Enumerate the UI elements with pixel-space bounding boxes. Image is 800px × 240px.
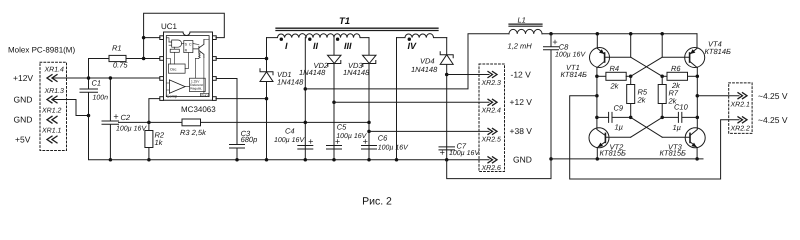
wire winding IV left down — [396, 38, 398, 160]
svg-text:IV: IV — [408, 41, 418, 51]
svg-text:XR1.1: XR1.1 — [41, 128, 62, 135]
inductor L1 — [508, 16, 543, 51]
svg-text:2k: 2k — [671, 81, 681, 90]
capacitor C6 — [362, 133, 410, 151]
node C8 top — [549, 32, 553, 36]
node R2 bottom on GND rail — [147, 158, 151, 162]
wire R1 branch from +12V rail — [89, 59, 110, 79]
transistor VT2 KT815B — [589, 128, 626, 159]
svg-text:XR2.2: XR2.2 — [730, 126, 751, 133]
capacitor C9 — [597, 104, 631, 132]
connector XR2.1/XR2.2 block — [729, 83, 752, 133]
svg-text:Osc: Osc — [170, 68, 177, 72]
capacitor C7 — [439, 142, 480, 158]
svg-text:I: I — [285, 41, 288, 51]
svg-text:1N4148: 1N4148 — [277, 78, 304, 87]
svg-text:+: + — [440, 148, 445, 158]
wire top feedback loop — [144, 13, 225, 58]
svg-text:1,2 mH: 1,2 mH — [508, 42, 533, 51]
transistor VT1 KT814B — [561, 34, 610, 79]
node C1 top on +12V rail — [87, 76, 91, 80]
resistor R4 — [597, 64, 631, 91]
op-amp U1 / IC UC1 MC34063 — [161, 22, 216, 114]
pin XR2.4 — [481, 99, 502, 114]
svg-text:R6: R6 — [671, 64, 681, 73]
node XR2.2 tap — [595, 94, 599, 98]
IC internal flip-flop — [184, 41, 193, 53]
pin 8 right — [213, 36, 217, 40]
resistor R5 — [627, 76, 648, 117]
node C1 bottom / GND step — [87, 114, 91, 118]
transistor VT4 KT814B — [685, 34, 731, 68]
node C10 tap — [696, 116, 700, 120]
svg-text:+: + — [552, 37, 557, 47]
node C2 bottom on GND rail — [109, 158, 113, 162]
svg-text:GND: GND — [14, 95, 33, 105]
winding IV — [397, 34, 447, 51]
svg-text:1N4148: 1N4148 — [343, 68, 370, 77]
pin 4 left — [160, 97, 164, 101]
pin XR1.4 — [44, 67, 65, 82]
wire XR2.1 row — [697, 95, 739, 97]
svg-text:XR2.3: XR2.3 — [481, 80, 502, 87]
node VD1 / IC gnd row — [265, 97, 269, 101]
resistor R1 — [109, 44, 128, 70]
wire VT1 base row — [605, 56, 631, 58]
svg-text:100µ 16V: 100µ 16V — [555, 52, 586, 59]
capacitor C8 — [544, 34, 587, 159]
svg-text:XR1.4: XR1.4 — [44, 67, 65, 74]
svg-text:C8: C8 — [559, 42, 569, 51]
svg-text:C2: C2 — [121, 113, 131, 122]
pin XR2.2 — [730, 117, 751, 133]
capacitor C4 — [274, 127, 313, 150]
svg-text:+: + — [363, 137, 368, 147]
node loop/pin6 R1 — [142, 57, 146, 61]
svg-text:1µ: 1µ — [615, 123, 624, 132]
winding III — [334, 34, 369, 51]
svg-text:КТ815Б: КТ815Б — [600, 148, 627, 157]
connector XR1 Molex PC-8981(M) — [8, 46, 75, 151]
node +38V row start — [367, 130, 371, 134]
node C5 bottom GND — [332, 158, 336, 162]
pin XR1.3 — [44, 88, 65, 103]
node C6 bottom GND — [367, 158, 371, 162]
pin 6 left — [160, 57, 164, 61]
node X right on rail — [660, 32, 664, 36]
IC internal wires — [166, 38, 208, 94]
node C9 right — [629, 116, 633, 120]
wire feedback row from C2 to R3 — [119, 121, 183, 123]
node XR2.1 tap — [696, 94, 700, 98]
svg-text:Comp: Comp — [167, 94, 178, 99]
pin 7 left — [160, 36, 164, 40]
svg-text:XR2.6: XR2.6 — [481, 165, 502, 172]
node C10 left — [660, 116, 664, 120]
pin 3 right gnd — [213, 97, 217, 101]
resistor R7 — [658, 76, 679, 117]
svg-text:КТ815Б: КТ815Б — [660, 148, 687, 157]
svg-text:+: + — [113, 112, 118, 122]
svg-text:2k: 2k — [637, 95, 647, 104]
wire VT1 collector chain down — [596, 68, 598, 129]
wire winding I-II junction down — [304, 38, 306, 160]
node C7 on GND rail — [445, 158, 449, 162]
node X left on rail — [629, 32, 633, 36]
svg-text:C4: C4 — [285, 127, 295, 136]
node C9 tap — [595, 116, 599, 120]
svg-text:XR1.2: XR1.2 — [41, 108, 62, 115]
emitter GND rail right — [551, 158, 703, 160]
wire GND down to bottom rail — [89, 116, 111, 160]
diode VD4 — [411, 52, 453, 74]
IC internal driver gate — [169, 40, 182, 47]
svg-text:C10: C10 — [674, 103, 689, 112]
node VT1 emitter on rail — [596, 32, 600, 36]
pin XR2.3 — [481, 72, 502, 87]
IC internal transistor Q — [193, 40, 204, 58]
IC internal resistor under gate — [170, 49, 179, 52]
node winding IV left GND — [395, 158, 399, 162]
svg-text:XR2.5: XR2.5 — [481, 137, 502, 144]
resistor R2 — [145, 122, 165, 159]
winding I — [267, 34, 307, 51]
pin XR2.1 — [730, 93, 751, 109]
cross-coupling upper X — [631, 34, 663, 77]
pin XR1.1 — [41, 128, 62, 143]
transistor VT3 KT815B — [660, 128, 706, 159]
svg-text:UC1: UC1 — [161, 22, 178, 31]
node R4 tap — [595, 75, 599, 79]
wire winding II-III junction down / VD2 chain — [333, 38, 335, 160]
resistor R6 — [662, 64, 697, 90]
GND bottom rail — [110, 159, 489, 161]
svg-text:III: III — [344, 41, 352, 51]
svg-text:C6: C6 — [378, 133, 388, 142]
wire R1 to IC pin — [126, 58, 160, 60]
node +38 top row — [304, 87, 308, 91]
svg-text:1N4148: 1N4148 — [299, 68, 326, 77]
svg-text:R: R — [185, 49, 188, 53]
wire VT2 base row — [605, 136, 630, 138]
svg-text:1µ: 1µ — [673, 123, 682, 132]
svg-text:100n: 100n — [93, 94, 109, 101]
capacitor C5 — [327, 122, 368, 149]
svg-text:Рис. 2: Рис. 2 — [362, 196, 392, 208]
node feedback row x300 — [304, 121, 308, 125]
svg-text:2k: 2k — [610, 82, 620, 91]
wire XR2.2 tap route — [570, 96, 739, 179]
svg-text:C1: C1 — [92, 79, 102, 88]
wire +38 top row to L1 corner — [305, 34, 509, 89]
svg-text:R1: R1 — [112, 44, 122, 53]
node VT3 emitter on rail — [695, 157, 699, 161]
svg-text:C5: C5 — [337, 122, 347, 131]
node R6 end — [696, 75, 700, 79]
svg-text:T1: T1 — [339, 16, 350, 27]
diode VD2 — [299, 55, 341, 77]
node +12V row start — [332, 101, 336, 105]
svg-text:XR2.1: XR2.1 — [730, 102, 751, 109]
svg-text:C9: C9 — [614, 104, 624, 113]
svg-text:GND: GND — [14, 115, 33, 125]
svg-text:-12 V: -12 V — [511, 69, 532, 79]
capacitor C3 — [230, 122, 258, 159]
svg-text:КТ814Б: КТ814Б — [705, 47, 732, 56]
capacitor C10 — [662, 103, 697, 133]
node VD1 chain on GND rail — [265, 158, 269, 162]
svg-text:R4: R4 — [610, 64, 620, 73]
svg-text:+5V: +5V — [15, 135, 31, 145]
node R5 top — [629, 75, 633, 79]
svg-text:100µ 16V: 100µ 16V — [378, 144, 409, 151]
node C8 bottom / emitter rail / bypass — [549, 157, 553, 161]
wire winding III right down / VD3 chain — [368, 38, 370, 160]
svg-text:Molex PC-8981(M): Molex PC-8981(M) — [8, 46, 75, 55]
wire XR1.4 to +12V rail — [52, 77, 160, 79]
wire VT4 base row — [662, 56, 689, 58]
wire -12V row to XR2.3 — [447, 74, 489, 76]
wire L1 to top rail — [542, 33, 697, 35]
svg-text:Regulat.: Regulat. — [190, 87, 202, 91]
svg-text:GND: GND — [201, 93, 209, 97]
node -12V row start — [445, 73, 449, 77]
svg-text:+12V: +12V — [13, 73, 33, 83]
IC internal oscillator box — [168, 64, 185, 73]
diode VD1 — [260, 69, 304, 87]
wire IC pin1 to transformer — [216, 58, 267, 60]
svg-text:100µ 16V: 100µ 16V — [116, 125, 147, 132]
wire junction up to IC right pin5 — [216, 79, 237, 123]
wire +12V row to XR2.4 — [334, 101, 489, 103]
IC internal GND label — [201, 93, 209, 97]
svg-text:C: C — [189, 42, 192, 46]
wire VT3 base row — [662, 136, 690, 138]
node C2 top on +12V rail — [109, 76, 113, 80]
node VT2 emitter on rail — [596, 157, 600, 161]
svg-text:~4.25 V: ~4.25 V — [758, 91, 788, 101]
wire +38V row to XR2.5 — [369, 130, 489, 132]
capacitor C1 — [80, 78, 108, 116]
node feedback row end — [367, 121, 371, 125]
svg-text:R3 2,5k: R3 2,5k — [180, 128, 207, 137]
resistor R3 — [180, 119, 207, 137]
svg-text:II: II — [313, 41, 319, 51]
wire IC gnd pin row to VD1 chain — [216, 98, 267, 100]
svg-text:680p: 680p — [241, 135, 258, 144]
pin XR2.5 — [481, 128, 502, 143]
svg-text:XR2.4: XR2.4 — [481, 108, 502, 115]
cross-coupling lower X — [631, 117, 663, 137]
node C4 bottom GND — [304, 158, 308, 162]
wire left pin7 row — [144, 37, 160, 39]
connector XR2 output block — [479, 64, 505, 172]
wire VT4 collector chain down — [696, 68, 698, 129]
svg-text:+12 V: +12 V — [510, 97, 533, 107]
wire winding IV right down / VD4 chain — [446, 38, 448, 160]
svg-text:0.75: 0.75 — [113, 61, 128, 70]
svg-text:+: + — [308, 137, 313, 147]
pin 1 right — [213, 57, 217, 61]
svg-text:GND: GND — [513, 155, 532, 165]
transformer T1 core — [276, 28, 438, 30]
svg-text:L1: L1 — [518, 16, 526, 25]
svg-text:~4.25 V: ~4.25 V — [758, 115, 788, 125]
winding II — [306, 34, 334, 51]
svg-text:КТ814Б: КТ814Б — [561, 70, 588, 79]
node C3 bottom on GND rail — [235, 158, 239, 162]
node R7 top — [660, 75, 664, 79]
svg-text:MC34063: MC34063 — [181, 105, 216, 114]
node IC drive on VD1 chain — [265, 57, 269, 61]
wire R2 top to IC pin — [149, 99, 160, 123]
IC internal comparator — [167, 80, 186, 99]
wire XR1.3 GND step — [52, 100, 89, 116]
svg-text:1k: 1k — [155, 138, 164, 147]
svg-text:1N4148: 1N4148 — [411, 65, 438, 74]
pin XR1.2 — [41, 108, 62, 124]
diode VD3 — [343, 55, 376, 77]
IC internal reference box — [190, 78, 206, 91]
svg-text:+38 V: +38 V — [510, 126, 533, 136]
svg-text:100µ 16V: 100µ 16V — [274, 137, 305, 144]
svg-text:XR1.3: XR1.3 — [44, 88, 65, 95]
wire R3 to C3 junction — [201, 121, 370, 123]
pin 5 left — [160, 77, 164, 81]
pin 2 right — [213, 77, 217, 81]
capacitor C2 — [102, 78, 147, 160]
node loop/pin7 — [142, 36, 146, 40]
wire GND bypass under XR2 — [447, 159, 551, 179]
svg-text:100µ 16V: 100µ 16V — [449, 150, 480, 157]
node R2 top — [147, 121, 151, 125]
pin XR2.6 — [481, 157, 502, 172]
wire winding I left down — [266, 38, 268, 160]
IC internal resistor zigzag — [199, 53, 201, 59]
